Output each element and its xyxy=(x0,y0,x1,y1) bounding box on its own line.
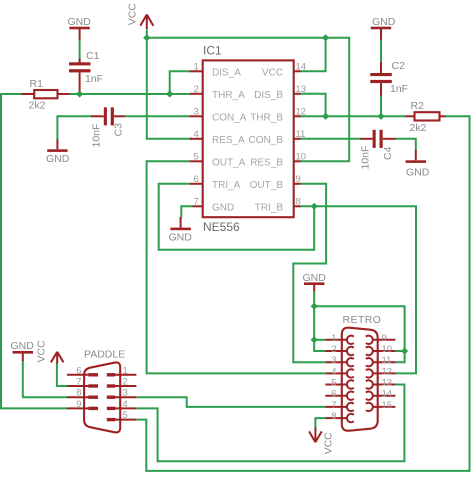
ground GND (top right, above C2) xyxy=(371,16,396,40)
junction node VCC / pin 14 xyxy=(322,34,329,41)
svg-text:7: 7 xyxy=(331,400,336,411)
svg-text:PADDLE: PADDLE xyxy=(84,349,125,361)
svg-text:RES_B: RES_B xyxy=(250,157,283,168)
wire net TRI (IC pin 8 to RETRO pin 12) xyxy=(300,206,416,373)
svg-text:OUT_A: OUT_A xyxy=(212,157,246,168)
wire R2 right around edge to PADDLE pin 5 xyxy=(136,116,469,471)
svg-text:13: 13 xyxy=(382,378,393,389)
svg-text:R2: R2 xyxy=(411,100,425,112)
ground GND (IC pin 7) xyxy=(169,217,193,244)
svg-text:VCC: VCC xyxy=(262,67,283,78)
svg-text:4: 4 xyxy=(123,399,128,410)
ground GND (top left, above C1) xyxy=(68,16,92,40)
supply VCC (top, arrow up) xyxy=(126,3,153,30)
IC1 pin 5 OUT_A xyxy=(190,151,246,168)
svg-text:GND: GND xyxy=(68,16,92,28)
wire IC pin 14 up to VCC run xyxy=(300,38,326,72)
connector PADDLE pin 2 xyxy=(107,377,137,388)
connector PADDLE pin 8 xyxy=(67,388,98,399)
wire GND to C1 top xyxy=(79,39,81,62)
svg-text:THR_A: THR_A xyxy=(212,90,245,101)
IC1 pin 13 DIS_B xyxy=(254,84,306,101)
svg-text:3: 3 xyxy=(123,388,128,399)
svg-text:3: 3 xyxy=(331,355,336,366)
svg-text:6: 6 xyxy=(331,389,336,400)
svg-text:GND: GND xyxy=(372,16,396,28)
connector RETRO pin 8 xyxy=(325,411,353,422)
svg-text:RES_A: RES_A xyxy=(212,135,245,146)
wire net THR_A (R1 right / C1 bottom / IC pin 2) xyxy=(69,93,190,95)
wire C3 right to IC pin 3 (CON_A) xyxy=(124,115,190,117)
capacitor C3 xyxy=(91,107,125,147)
wire PADDLE pin 4 to RETRO pin 13 xyxy=(136,385,404,462)
svg-text:TRI_A: TRI_A xyxy=(212,180,241,191)
connector RETRO pin 5 xyxy=(325,378,353,389)
svg-text:6: 6 xyxy=(76,365,81,376)
junction node RETRO pin 1 tap xyxy=(311,336,318,343)
svg-text:5: 5 xyxy=(194,151,199,162)
connector RETRO pin 9 xyxy=(366,333,396,344)
connector PADDLE pin 5 xyxy=(107,410,137,421)
connector PADDLE body xyxy=(84,349,125,433)
wire net VCC (arrow / IC pin 14 / IC pin 4 / IC pin 10) xyxy=(147,30,349,161)
connector RETRO pin 13 xyxy=(366,378,396,389)
wire net N$1 (pot wiper: R1 left / left edge / PADDLE pin 9) xyxy=(1,94,67,408)
IC1 pin 6 TRI_A xyxy=(190,174,241,191)
junction node TRI_A / TRI_B xyxy=(311,203,318,210)
wire C3 left to GND xyxy=(57,116,92,140)
svg-text:8: 8 xyxy=(296,196,301,207)
connector PADDLE pin 9 xyxy=(67,399,98,410)
svg-text:1nF: 1nF xyxy=(390,83,408,95)
svg-text:1: 1 xyxy=(331,333,336,344)
svg-text:10nF: 10nF xyxy=(91,124,103,148)
svg-text:7: 7 xyxy=(194,196,199,207)
capacitor C1 xyxy=(69,50,103,94)
svg-text:C1: C1 xyxy=(86,50,100,62)
svg-text:14: 14 xyxy=(382,389,393,400)
svg-text:9: 9 xyxy=(382,333,387,344)
svg-text:DIS_A: DIS_A xyxy=(212,67,241,78)
connector RETRO pin 14 xyxy=(366,389,396,400)
svg-text:TRI_B: TRI_B xyxy=(255,202,284,213)
svg-text:2k2: 2k2 xyxy=(410,122,427,134)
svg-text:5: 5 xyxy=(123,410,128,421)
svg-text:C3: C3 xyxy=(113,123,125,137)
svg-text:7: 7 xyxy=(76,377,81,388)
IC1 pin 10 RES_B xyxy=(250,151,306,168)
svg-text:CON_A: CON_A xyxy=(212,112,247,123)
svg-text:13: 13 xyxy=(296,84,307,95)
connector RETRO pin 6 xyxy=(325,389,353,400)
wire PADDLE GND to pin 8 xyxy=(23,360,67,397)
svg-text:GND: GND xyxy=(169,232,193,244)
svg-text:9: 9 xyxy=(296,174,301,185)
svg-text:THR_B: THR_B xyxy=(250,112,283,123)
connector PADDLE pin 6 xyxy=(67,365,98,376)
wire net GND at RETRO (pins 1 2 10 11) xyxy=(314,290,404,362)
junction node RETRO pin 10 tap xyxy=(401,347,408,354)
svg-text:NE556: NE556 xyxy=(203,220,240,234)
resistor R2 xyxy=(406,100,446,134)
svg-text:VCC: VCC xyxy=(323,432,335,455)
svg-text:DIS_B: DIS_B xyxy=(254,90,283,101)
svg-text:GND: GND xyxy=(303,272,327,284)
junction node THR_B / pin 13 xyxy=(322,113,329,120)
IC1 pin 12 THR_B xyxy=(250,106,306,123)
svg-text:GND: GND xyxy=(11,340,35,352)
op-amp/IC U1 NE556 box xyxy=(203,44,294,235)
svg-text:C2: C2 xyxy=(392,60,406,72)
svg-text:8: 8 xyxy=(331,411,336,422)
wire C4 right to GND xyxy=(395,139,416,151)
junction node THR_B / C2 xyxy=(377,113,384,120)
ground GND (right, below C4) xyxy=(406,150,430,179)
wire net OUT_B (IC pin 9 to RETRO pin 3) xyxy=(293,184,326,362)
svg-text:GND: GND xyxy=(212,202,234,213)
capacitor C4 xyxy=(360,130,396,170)
connector RETRO pin 15 xyxy=(366,400,396,411)
wire net OUT_A (IC pin 5 to RETRO pin 4) xyxy=(147,161,326,373)
wire GND to C2 top xyxy=(380,39,382,63)
IC1 pin 4 RES_A xyxy=(190,129,245,146)
wire IC pin 6 (TRI_A) loop to TRI net xyxy=(159,184,315,250)
svg-text:GND: GND xyxy=(46,153,70,165)
svg-text:10nF: 10nF xyxy=(360,146,372,170)
connector RETRO pin 3 xyxy=(325,355,353,366)
svg-text:12: 12 xyxy=(296,106,307,117)
svg-text:2: 2 xyxy=(194,84,199,95)
wire branch to IC pin 1 (DIS_A) xyxy=(170,71,190,94)
junction node THR_A/R1/C1 xyxy=(76,90,83,97)
svg-text:10: 10 xyxy=(296,151,307,162)
capacitor C2 xyxy=(370,60,408,96)
svg-text:R1: R1 xyxy=(30,78,44,90)
svg-text:VCC: VCC xyxy=(35,340,47,363)
svg-text:15: 15 xyxy=(382,400,393,411)
connector RETRO pin 10 xyxy=(366,344,396,355)
ground GND (below C3) xyxy=(46,140,70,166)
svg-text:2k2: 2k2 xyxy=(29,100,46,112)
wire IC pin 13 down to THR_B row xyxy=(300,94,326,117)
connector RETRO body xyxy=(342,314,381,431)
connector RETRO pin 11 xyxy=(366,355,396,366)
resistor R1 xyxy=(22,78,70,112)
svg-text:1: 1 xyxy=(123,365,128,376)
IC1 pin 8 TRI_B xyxy=(255,196,301,213)
IC1 pin 3 CON_A xyxy=(190,106,247,123)
svg-text:CON_B: CON_B xyxy=(249,135,284,146)
svg-text:12: 12 xyxy=(382,366,393,377)
IC1 pin 7 GND xyxy=(193,196,235,213)
IC1 pin 1 DIS_A xyxy=(190,61,241,78)
wire PADDLE pin 3 to RETRO pin 7 xyxy=(136,397,325,407)
svg-text:4: 4 xyxy=(194,129,199,140)
connector RETRO pin 2 xyxy=(325,344,353,355)
svg-text:GND: GND xyxy=(406,167,430,179)
wire C2 bottom to THR_B row xyxy=(380,95,382,117)
svg-text:2: 2 xyxy=(123,377,128,388)
IC1 pin 11 CON_B xyxy=(249,129,306,146)
wire IC pin 11 to C4 left xyxy=(300,138,362,140)
svg-text:OUT_B: OUT_B xyxy=(250,180,284,191)
connector RETRO pin 7 xyxy=(325,400,353,411)
svg-text:14: 14 xyxy=(296,61,307,72)
svg-text:RETRO: RETRO xyxy=(343,314,382,326)
svg-text:9: 9 xyxy=(76,399,81,410)
connector RETRO pin 12 xyxy=(366,366,396,377)
ground GND (PADDLE) xyxy=(11,340,35,361)
connector PADDLE pin 7 xyxy=(67,377,98,388)
supply VCC (RETRO, arrow down) xyxy=(309,428,335,455)
junction node RETRO GND tee xyxy=(311,303,318,310)
wire net THR_B (IC pin 12 / C2 bottom / R2 left) xyxy=(300,115,406,117)
svg-text:IC1: IC1 xyxy=(203,44,222,58)
connector PADDLE pin 4 xyxy=(107,399,137,410)
junction node VCC corner xyxy=(143,34,150,41)
svg-text:5: 5 xyxy=(331,378,336,389)
svg-text:C4: C4 xyxy=(382,146,394,160)
svg-text:2: 2 xyxy=(331,344,336,355)
svg-text:VCC: VCC xyxy=(126,3,138,26)
svg-text:8: 8 xyxy=(76,388,81,399)
wire IC pin 7 to GND xyxy=(181,206,193,217)
junction node pin1/pin2 branch xyxy=(166,90,173,97)
connector PADDLE pin 3 xyxy=(107,388,137,399)
svg-text:3: 3 xyxy=(194,106,199,117)
svg-text:1nF: 1nF xyxy=(85,73,103,85)
svg-text:11: 11 xyxy=(382,355,392,366)
svg-text:1: 1 xyxy=(194,61,199,72)
connector RETRO pin 4 xyxy=(325,366,353,377)
IC1 pin 9 OUT_B xyxy=(250,174,301,191)
supply VCC (PADDLE, arrow up) xyxy=(35,340,63,364)
connector PADDLE pin 1 xyxy=(107,365,137,376)
IC1 pin 14 VCC xyxy=(262,61,306,78)
svg-text:6: 6 xyxy=(194,174,199,185)
IC1 pin 2 THR_A xyxy=(190,84,245,101)
svg-text:11: 11 xyxy=(296,129,306,140)
ground GND (RETRO) xyxy=(303,272,327,291)
connector RETRO pin 1 xyxy=(325,333,353,344)
svg-text:4: 4 xyxy=(331,366,336,377)
wire PADDLE VCC to pin 7 xyxy=(57,363,67,387)
svg-text:10: 10 xyxy=(382,344,393,355)
wire RETRO pin 8 to VCC arrow xyxy=(315,418,325,428)
